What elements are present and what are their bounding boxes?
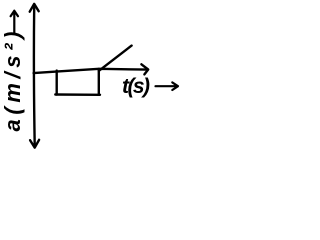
pulse left edge [56, 71, 58, 95]
svg-text:t(s): t(s) [122, 75, 150, 98]
pulse right edge [98, 69, 100, 95]
y-axis top arrowhead [30, 4, 39, 12]
x-axis shaft [34, 69, 147, 73]
x-axis label arrow [156, 82, 179, 90]
y-axis label arrow [11, 11, 18, 33]
x-axis arrowhead [141, 64, 148, 74]
pulse bottom edge [55, 93, 100, 96]
svg-text:a(m/s²): a(m/s²) [0, 32, 25, 132]
y-axis shaft [33, 7, 36, 145]
ramp line [99, 46, 132, 71]
y-axis bottom arrowhead [30, 140, 39, 148]
